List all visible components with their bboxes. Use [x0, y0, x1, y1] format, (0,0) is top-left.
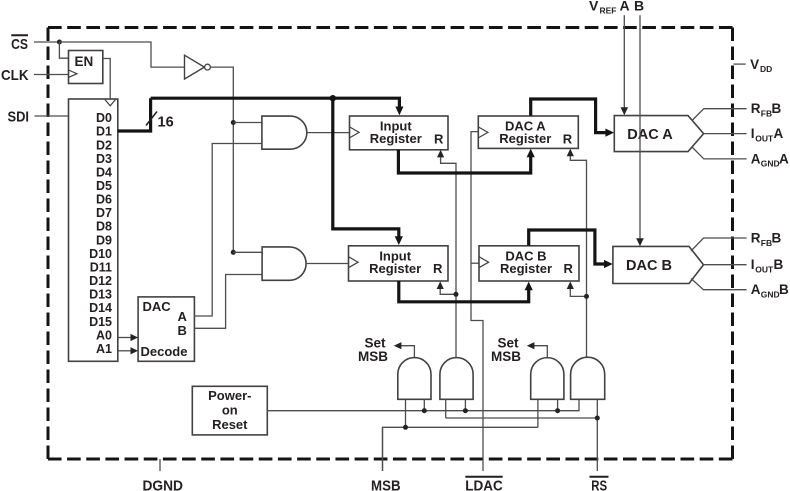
- junction dot RS line: [595, 416, 600, 421]
- pin RFB B label (DAC B group): [751, 231, 782, 248]
- pin IOUT A label: [751, 126, 784, 143]
- svg-text:B: B: [772, 231, 782, 246]
- svg-text:D5: D5: [96, 179, 112, 193]
- wire CLK pin to EN block: [34, 74, 69, 76]
- svg-text:A: A: [751, 282, 761, 297]
- AND gate channel A select: [262, 116, 307, 149]
- wire decode output B to AND2 lower input: [194, 275, 262, 329]
- Power-on Reset block: [192, 386, 267, 435]
- svg-text:LDAC: LDAC: [465, 478, 503, 491]
- junction dot POR-gate1: [422, 408, 427, 413]
- wire gate1 output to Set MSB: [398, 346, 414, 358]
- wire IOUT B output: [704, 264, 747, 266]
- svg-text:EN: EN: [75, 54, 94, 69]
- svg-text:RS: RS: [591, 478, 607, 491]
- wire POR output bus to reset gates: [267, 399, 579, 410]
- Input Register B: [349, 246, 449, 281]
- svg-text:D15: D15: [89, 315, 112, 329]
- arrowhead R DAC A Register: [567, 149, 574, 157]
- pin MSB: [371, 427, 401, 491]
- gate3 left leg to MSB line: [537, 399, 539, 427]
- pin VDD: [734, 57, 773, 74]
- bus DAC A Register to DAC A: [531, 99, 609, 133]
- svg-text:A: A: [620, 0, 630, 14]
- wire MSB line to gates 1 and 3: [383, 427, 538, 471]
- arrowhead into DAC A Register: [527, 149, 535, 158]
- svg-text:16: 16: [158, 115, 174, 131]
- pin AGND A label: [751, 151, 789, 168]
- svg-text:SDI: SDI: [8, 109, 30, 126]
- wire EN output to shift register clock: [103, 59, 110, 100]
- junction dot POR-gate3: [555, 408, 560, 413]
- svg-text:D4: D4: [96, 165, 112, 179]
- pin VREF A B label: [589, 0, 644, 16]
- svg-text:DAC: DAC: [143, 299, 172, 314]
- junction dot POR-gate2: [463, 408, 468, 413]
- svg-text:D10: D10: [89, 247, 112, 261]
- wire AND2 output to Input Register B clock: [306, 263, 348, 265]
- wire decode output A to AND1 lower input: [194, 144, 262, 317]
- wire LDAC to DAC register clocks: [471, 132, 483, 471]
- AND gate channel B select: [262, 247, 306, 280]
- wire RS cross line to gate2: [446, 417, 598, 419]
- DAC B block: [613, 246, 704, 283]
- label Set MSB A: [358, 336, 388, 365]
- wire to AND1 upper input: [233, 122, 262, 124]
- AND gate set-MSB A: [398, 358, 431, 400]
- gate4 right leg / RS net: [596, 399, 598, 471]
- wire gate3 output to Set MSB: [531, 346, 547, 358]
- arrowhead into DAC B: [604, 260, 613, 268]
- wire AGND A output: [692, 147, 747, 159]
- svg-text:D8: D8: [96, 220, 112, 234]
- DAC B Register: [479, 246, 579, 281]
- wire SDI pin to shift register: [35, 115, 69, 117]
- junction dot DAC-register reset line: [584, 294, 589, 299]
- svg-text:OUT: OUT: [755, 134, 774, 144]
- arrowhead A1: [131, 347, 139, 354]
- wire CS junction to inverter input: [59, 42, 184, 67]
- svg-text:V: V: [589, 0, 599, 14]
- 16-bit bus main run: [151, 98, 400, 109]
- wire to AND2 upper input: [233, 251, 262, 253]
- label Set MSB B: [491, 336, 521, 365]
- wire CS pin to junction: [34, 41, 59, 43]
- wire Input Register B reset R: [440, 287, 456, 294]
- wire CS junction down to EN block: [59, 42, 68, 58]
- svg-text:D13: D13: [89, 288, 112, 302]
- wire IOUT A output: [704, 133, 747, 135]
- pin LDAC (active low): [465, 477, 503, 491]
- pin CS (active low) label: [11, 35, 28, 53]
- arrowhead R DAC B Register: [567, 281, 574, 289]
- svg-text:R: R: [564, 261, 574, 276]
- svg-text:D14: D14: [89, 301, 112, 315]
- wire AGND B output: [691, 279, 747, 290]
- svg-text:R: R: [751, 231, 761, 246]
- wire LDAC branch to DAC B Register clock: [471, 262, 479, 264]
- arrowhead R Input Register A: [437, 150, 444, 158]
- wire Input Register A reset R: [441, 156, 456, 359]
- svg-text:D7: D7: [96, 206, 112, 220]
- arrowhead Set MSB B: [527, 342, 535, 349]
- svg-text:A: A: [774, 126, 784, 141]
- arrowhead Set MSB A: [394, 342, 402, 349]
- svg-text:D12: D12: [89, 274, 112, 288]
- gate1 left leg to MSB line: [405, 399, 407, 427]
- pin AGND B label: [751, 282, 789, 299]
- wire RFB B output (DAC A): [692, 109, 747, 121]
- svg-text:D1: D1: [96, 125, 112, 139]
- junction dot inverter output to AND1: [231, 120, 236, 125]
- AND gate reset DAC registers: [571, 357, 605, 399]
- 16-bit bus branch to Input Register B: [333, 98, 399, 239]
- svg-text:Register: Register: [369, 261, 421, 276]
- AND gate reset input registers: [440, 358, 473, 400]
- svg-text:on: on: [222, 403, 238, 418]
- bus width slash: [146, 112, 157, 126]
- junction dot bus branch: [330, 95, 336, 101]
- junction dot MSB-gate1: [403, 425, 408, 430]
- 18-bit serial shift register (D0-D15, A0, A1): [69, 99, 118, 361]
- arrowhead into DAC B Register: [525, 282, 533, 291]
- wire A1 to decode: [118, 350, 134, 352]
- svg-text:Power-: Power-: [208, 388, 251, 403]
- svg-text:D0: D0: [96, 111, 112, 125]
- svg-text:A1: A1: [96, 342, 112, 356]
- svg-text:CS: CS: [11, 36, 28, 53]
- bus Input Register B to DAC B Register: [399, 281, 529, 302]
- svg-text:Register: Register: [500, 261, 552, 276]
- svg-text:R: R: [751, 101, 761, 116]
- gate2 left leg to RS line: [445, 399, 447, 418]
- gate3 right leg to POR line: [557, 399, 559, 410]
- svg-text:A0: A0: [96, 328, 112, 342]
- wire DAC B Register reset R: [570, 287, 586, 296]
- svg-text:D11: D11: [90, 261, 112, 275]
- svg-text:B: B: [779, 282, 789, 297]
- shift register clock edge symbol: [105, 100, 115, 106]
- DAC A Register: [478, 116, 578, 148]
- svg-text:D6: D6: [96, 193, 112, 207]
- junction dot inverter output to AND2: [231, 250, 236, 255]
- inverter on CS line: [185, 55, 211, 79]
- svg-text:Register: Register: [370, 131, 422, 146]
- bus Input Register A to DAC A Register: [398, 150, 530, 173]
- arrowhead VREF B into DAC B: [636, 238, 644, 246]
- gate2 right leg to POR line: [464, 399, 466, 410]
- wire RFB B output (DAC B): [691, 238, 747, 251]
- svg-text:B: B: [772, 101, 782, 116]
- svg-text:DGND: DGND: [142, 478, 183, 491]
- svg-text:Reset: Reset: [212, 417, 248, 432]
- svg-text:CLK: CLK: [1, 67, 29, 84]
- net VREF A: [623, 15, 625, 110]
- DAC A block: [614, 116, 703, 152]
- arrowhead VREF A into DAC A: [621, 107, 629, 115]
- pin RS (active low): [590, 477, 609, 491]
- svg-text:MSB: MSB: [358, 349, 388, 364]
- svg-text:A: A: [178, 309, 188, 324]
- svg-text:R: R: [433, 261, 443, 276]
- svg-text:FB: FB: [761, 109, 772, 119]
- svg-text:GND: GND: [761, 159, 780, 169]
- svg-text:Register: Register: [499, 131, 551, 146]
- svg-text:OUT: OUT: [755, 265, 774, 275]
- pin RFB B label (DAC A group): [751, 101, 782, 118]
- svg-text:D3: D3: [96, 152, 112, 166]
- EN clock-enable block: [69, 51, 103, 84]
- svg-text:MSB: MSB: [371, 478, 401, 491]
- arrowhead A0: [131, 334, 139, 341]
- junction dot CS: [57, 40, 62, 45]
- pin IOUT B label: [751, 257, 784, 274]
- svg-text:D9: D9: [96, 233, 112, 247]
- bus DAC B Register to DAC B: [529, 230, 608, 264]
- svg-text:D2: D2: [96, 138, 112, 152]
- svg-text:B: B: [634, 0, 644, 14]
- svg-text:R: R: [434, 131, 444, 146]
- svg-text:GND: GND: [761, 290, 780, 300]
- net VREF B: [639, 15, 641, 241]
- wire A0 to decode: [118, 337, 134, 339]
- svg-text:REF: REF: [600, 6, 617, 16]
- svg-text:B: B: [774, 257, 784, 272]
- arrowhead into DAC A: [605, 129, 614, 137]
- svg-text:MSB: MSB: [491, 349, 521, 364]
- svg-text:V: V: [750, 57, 759, 72]
- arrowhead bus into Input Register B: [395, 236, 403, 245]
- svg-text:DAC B: DAC B: [626, 258, 672, 274]
- arrowhead R Input Register B: [437, 281, 444, 289]
- wire inverter output down to AND gates: [210, 67, 233, 252]
- chip boundary dashed border: [48, 28, 733, 460]
- svg-text:A: A: [751, 151, 761, 166]
- junction dot input-register reset line: [454, 292, 459, 297]
- gate1 right leg to POR line: [423, 399, 425, 410]
- svg-text:I: I: [751, 126, 755, 141]
- 16-bit bus from shift register: [118, 98, 151, 131]
- AND gate set-MSB B: [531, 358, 564, 400]
- svg-text:R: R: [563, 131, 573, 146]
- Input Register A: [350, 116, 449, 150]
- arrowhead bus into Input Register A: [395, 107, 403, 116]
- svg-text:B: B: [178, 323, 187, 338]
- svg-text:DD: DD: [760, 64, 772, 74]
- pin DGND: [142, 459, 183, 491]
- wire DAC A Register reset R: [570, 156, 586, 359]
- svg-text:FB: FB: [761, 238, 772, 248]
- wire AND1 output to Input Register A clock: [307, 132, 350, 134]
- svg-text:I: I: [751, 257, 755, 272]
- svg-text:A: A: [779, 151, 789, 166]
- DAC Decode block: [138, 297, 194, 361]
- svg-text:DAC A: DAC A: [627, 127, 673, 143]
- svg-text:Decode: Decode: [141, 344, 188, 359]
